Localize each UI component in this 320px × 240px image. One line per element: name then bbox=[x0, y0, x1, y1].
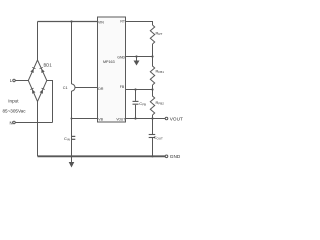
svg-text:RRT: RRT bbox=[156, 31, 163, 37]
wire bbox=[152, 90, 154, 97]
wire RT pin to chain bbox=[126, 22, 153, 26]
svg-text:GND: GND bbox=[117, 55, 125, 59]
svg-text:MP163: MP163 bbox=[103, 60, 115, 64]
diode D-topleft bbox=[30, 67, 35, 73]
wire DR pin bbox=[75, 87, 98, 89]
ground IC stem bbox=[136, 57, 138, 61]
node dot gnd arrow bbox=[135, 55, 137, 57]
svg-text:COUT: COUT bbox=[154, 135, 163, 141]
wire bridge top vertical bbox=[37, 22, 39, 61]
wire C_IN branch upper bbox=[71, 22, 73, 85]
capacitor C_OUT bbox=[152, 119, 154, 135]
svg-text:CFB: CFB bbox=[139, 101, 146, 107]
ground main stem bbox=[71, 156, 73, 162]
wire VB pin bbox=[72, 118, 98, 120]
svg-text:N: N bbox=[10, 120, 13, 125]
resistor R_FB1 bbox=[150, 66, 154, 85]
resistor R_RT bbox=[150, 25, 154, 44]
ground main arrow bbox=[69, 162, 75, 168]
terminal GND bbox=[165, 155, 168, 158]
svg-text:BD1: BD1 bbox=[44, 63, 53, 68]
svg-text:Input: Input bbox=[8, 98, 19, 103]
terminal N bbox=[13, 121, 15, 123]
svg-text:VOUT: VOUT bbox=[170, 116, 183, 121]
node dot C_IN top bbox=[70, 20, 72, 22]
svg-text:RFB2: RFB2 bbox=[156, 100, 165, 106]
node dot chain FB bbox=[151, 88, 153, 90]
capacitor C_FB bbox=[135, 90, 137, 101]
node dot chain GND bbox=[151, 55, 153, 57]
diode D-bottomright bbox=[40, 88, 45, 94]
wire bbox=[152, 57, 154, 67]
svg-text:RFB1: RFB1 bbox=[156, 69, 165, 75]
svg-text:CIN: CIN bbox=[64, 136, 70, 142]
node dot C_OUT rail bbox=[151, 155, 153, 157]
svg-text:DR: DR bbox=[98, 87, 104, 91]
diode D-bottomleft bbox=[30, 88, 35, 94]
svg-text:VOUT: VOUT bbox=[116, 117, 125, 121]
wire L input bbox=[15, 80, 28, 82]
wire top rail bbox=[38, 21, 98, 23]
capacitor C_IN bbox=[71, 91, 73, 156]
terminal L bbox=[13, 79, 15, 81]
bridge rectifier BD1 body bbox=[28, 60, 47, 102]
svg-text:VIN: VIN bbox=[98, 20, 104, 24]
node dot C_FB top bbox=[134, 88, 136, 90]
wire bbox=[152, 44, 154, 57]
node dot C_FB bottom bbox=[134, 117, 136, 119]
wire N input bbox=[15, 122, 52, 124]
resistor R_FB2 bbox=[150, 96, 154, 115]
wire bridge bottom to ground rail bbox=[37, 102, 39, 157]
diode D-topright bbox=[39, 67, 44, 73]
ground IC arrow bbox=[134, 61, 140, 66]
svg-text:GND: GND bbox=[170, 154, 181, 159]
node dot chain VOUT bbox=[151, 117, 153, 119]
svg-text:85~305Vac: 85~305Vac bbox=[2, 109, 26, 114]
wire FB pin bbox=[126, 89, 153, 91]
node dot VB bbox=[71, 118, 73, 120]
svg-text:C1: C1 bbox=[63, 86, 68, 90]
wire GND pin net bbox=[126, 56, 153, 58]
wire hop over DR bbox=[72, 84, 76, 91]
wire bbox=[152, 85, 154, 90]
node dot rail/C_IN bbox=[70, 155, 72, 157]
wire bbox=[152, 115, 154, 119]
svg-text:VB: VB bbox=[98, 117, 103, 121]
wire VOUT pin bbox=[126, 118, 166, 120]
wire bottom ground rail bbox=[38, 155, 166, 157]
IC U1 MP163 box bbox=[98, 17, 126, 122]
svg-text:FB: FB bbox=[120, 85, 125, 89]
terminal VOUT bbox=[165, 117, 168, 120]
wire bridge right vertex to N bbox=[47, 81, 53, 123]
